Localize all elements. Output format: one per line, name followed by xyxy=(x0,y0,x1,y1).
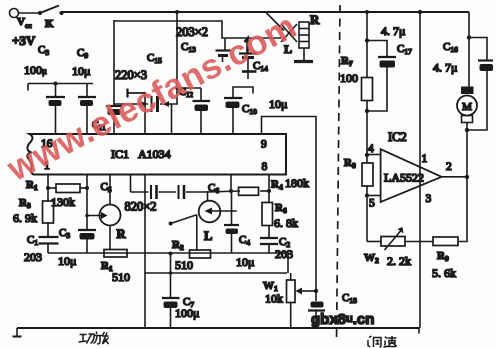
svg-text:IC2: IC2 xyxy=(388,130,407,144)
svg-text:100μ: 100μ xyxy=(24,63,47,77)
svg-text:8: 8 xyxy=(262,161,268,173)
resistor R6 6.8k xyxy=(262,191,273,238)
node output xyxy=(465,175,469,179)
potentiometer W1 10k xyxy=(287,273,317,328)
op-amp IC2 LA5522 xyxy=(381,149,442,202)
svg-text:10μ: 10μ xyxy=(58,254,76,268)
terminal Vcc xyxy=(10,9,19,18)
svg-text:R8: R8 xyxy=(344,157,356,170)
node xyxy=(467,35,471,39)
svg-text:C16: C16 xyxy=(443,41,458,54)
svg-text:4: 4 xyxy=(368,143,374,155)
node C3 top xyxy=(54,82,58,86)
wire feedback xyxy=(458,177,467,242)
wire pin15 column xyxy=(86,175,88,253)
svg-text:C1: C1 xyxy=(27,234,38,247)
node xyxy=(229,189,233,193)
wire output xyxy=(442,176,467,178)
svg-text:10μ: 10μ xyxy=(72,64,90,78)
svg-text:R7: R7 xyxy=(341,55,353,68)
svg-text:510: 510 xyxy=(175,258,193,272)
head L circle xyxy=(171,191,237,251)
wire row191 xyxy=(208,191,240,192)
svg-text:W2: W2 xyxy=(364,252,379,265)
wire R7 column xyxy=(366,12,368,242)
svg-text:130k: 130k xyxy=(51,195,75,209)
capacitor C3 100u xyxy=(46,84,65,135)
head R coil xyxy=(299,22,309,48)
capacitor C14 xyxy=(239,39,257,80)
node xyxy=(175,10,179,14)
wire pin below IC xyxy=(130,175,132,192)
svg-text:C13: C13 xyxy=(181,41,196,54)
wire long pin column xyxy=(144,175,146,328)
wire row273 xyxy=(145,272,287,274)
resistor R3 6.9k xyxy=(43,188,54,237)
resistor R1 130k xyxy=(48,184,87,193)
wire bend to W1 xyxy=(287,253,289,273)
capacitor C3b 10u xyxy=(78,230,96,240)
svg-text:gbx8u.cn: gbx8u.cn xyxy=(311,311,374,328)
svg-text:3: 3 xyxy=(426,193,432,205)
wire stub xyxy=(128,89,147,98)
svg-text:+3V: +3V xyxy=(12,33,36,48)
svg-text:10μ: 10μ xyxy=(236,255,254,269)
wire xyxy=(176,12,178,104)
capacitor C16 4.7u xyxy=(467,38,493,131)
svg-text:180k: 180k xyxy=(285,176,309,190)
svg-text:203: 203 xyxy=(275,247,293,261)
wire pin5 xyxy=(367,195,381,197)
capacitor C5 820 xyxy=(131,185,177,199)
svg-text:R6: R6 xyxy=(275,202,287,215)
svg-text:Vcc: Vcc xyxy=(17,16,32,30)
svg-text:203×2: 203×2 xyxy=(176,25,208,39)
svg-text:www.elecfans.com: www.elecfans.com xyxy=(0,6,303,189)
capacitor C1 203 xyxy=(39,237,59,253)
wire motor to output xyxy=(466,130,468,177)
resistor R7 100 xyxy=(362,78,373,101)
wire top rail xyxy=(62,11,470,13)
wire C3-C9 top xyxy=(28,84,93,91)
capacitor C4 10u xyxy=(224,191,239,253)
svg-text:2. 2k: 2. 2k xyxy=(387,254,411,268)
capacitor C12 xyxy=(177,88,210,134)
svg-text:5. 6k: 5. 6k xyxy=(432,266,456,280)
svg-text:C4: C4 xyxy=(239,234,250,247)
wire to erase head xyxy=(266,13,284,31)
resistor R9 5.6k xyxy=(405,237,458,246)
wire xyxy=(171,104,173,134)
svg-text:100μ: 100μ xyxy=(175,306,199,320)
potentiometer W2 2.2k xyxy=(367,227,405,250)
svg-text:4. 7μ: 4. 7μ xyxy=(433,61,457,75)
resistor R8 xyxy=(362,163,373,186)
node xyxy=(85,186,89,190)
wire pin xyxy=(230,175,232,191)
wire pin8 xyxy=(268,175,270,191)
svg-text:C15: C15 xyxy=(147,52,162,65)
svg-text:2: 2 xyxy=(446,161,452,173)
node W1 wiper xyxy=(314,289,318,293)
wire rail to motor xyxy=(468,12,470,88)
separator dashed line xyxy=(337,5,341,341)
capacitor C21 xyxy=(106,106,122,134)
svg-text:203: 203 xyxy=(24,250,42,264)
wire upper-middle xyxy=(114,21,281,38)
node xyxy=(175,86,179,90)
node rail center xyxy=(418,10,422,14)
svg-text:C6: C6 xyxy=(208,182,219,195)
capacitor C13 xyxy=(216,38,231,62)
ground erase head xyxy=(294,48,313,62)
resistor R2 510 xyxy=(190,250,211,258)
capacitor C7 100u xyxy=(162,253,180,328)
node xyxy=(365,38,369,42)
node xyxy=(46,186,50,190)
svg-text:4. 7μ: 4. 7μ xyxy=(381,24,405,38)
svg-text:R2: R2 xyxy=(172,239,184,252)
ground rail xyxy=(13,328,420,337)
node motor bottom xyxy=(465,128,469,132)
wire pin4 xyxy=(367,154,381,156)
node pin4 xyxy=(365,153,369,157)
svg-text:820×2: 820×2 xyxy=(125,200,157,214)
wire xyxy=(19,12,41,14)
resistor R1b 510 xyxy=(104,250,127,258)
label tiaosu xyxy=(368,336,397,348)
svg-text:C17: C17 xyxy=(397,43,412,56)
wire xyxy=(113,20,115,105)
svg-text:K: K xyxy=(45,18,54,30)
capacitor C10 xyxy=(224,87,253,134)
svg-text:L: L xyxy=(204,229,212,243)
svg-text:R9: R9 xyxy=(437,250,449,263)
svg-text:9: 9 xyxy=(261,139,267,151)
capacitor C2 203 xyxy=(260,238,278,253)
node xyxy=(169,252,173,256)
svg-text:C3: C3 xyxy=(59,227,70,240)
svg-text:R: R xyxy=(117,227,127,241)
svg-text:5: 5 xyxy=(369,198,375,210)
node pin5 xyxy=(365,193,369,197)
node xyxy=(169,271,173,275)
capacitor C18 xyxy=(308,291,325,328)
capacitor C15 220x3 xyxy=(114,96,178,112)
motor M xyxy=(457,87,477,131)
svg-text:M: M xyxy=(462,101,472,113)
svg-text:C9: C9 xyxy=(77,47,88,60)
svg-text:10k: 10k xyxy=(265,292,283,306)
head R circle xyxy=(87,175,121,250)
wire xyxy=(144,93,146,134)
capacitor C9 10u xyxy=(78,84,96,135)
wire pin1 pin3 column xyxy=(419,12,421,328)
node xyxy=(85,214,89,218)
wire pin9 xyxy=(262,117,317,292)
svg-text:R: R xyxy=(310,12,320,27)
capacitor C6 820 xyxy=(179,185,209,199)
switch K xyxy=(40,6,59,14)
svg-text:C10: C10 xyxy=(242,103,257,116)
svg-text:100: 100 xyxy=(340,71,358,85)
IC1 A1034 body xyxy=(27,134,286,175)
node xyxy=(267,189,271,193)
node switch-left xyxy=(38,11,42,15)
node rail R7 xyxy=(365,10,369,14)
svg-text:LA5522: LA5522 xyxy=(384,171,424,185)
svg-text:IC1 A1034: IC1 A1034 xyxy=(111,147,171,161)
wire row253 xyxy=(48,252,288,254)
svg-text:1: 1 xyxy=(422,153,428,165)
node xyxy=(365,109,369,113)
svg-text:R3: R3 xyxy=(19,197,31,210)
svg-text:C3: C3 xyxy=(38,44,49,57)
node xyxy=(169,222,173,226)
svg-text:6. 8k: 6. 8k xyxy=(274,216,298,230)
capacitor C17 4.7u xyxy=(367,41,396,112)
label gongfang xyxy=(79,332,109,345)
wire pin1 xyxy=(47,175,49,188)
svg-text:10μ: 10μ xyxy=(269,97,287,111)
resistor R4 180k xyxy=(239,187,270,195)
svg-text:6. 9k: 6. 9k xyxy=(13,211,37,225)
svg-text:C18: C18 xyxy=(342,292,357,305)
erase head L (X symbol) xyxy=(281,24,297,42)
svg-text:R4: R4 xyxy=(271,179,283,192)
svg-text:510: 510 xyxy=(112,270,130,284)
node switch-right xyxy=(59,11,63,15)
